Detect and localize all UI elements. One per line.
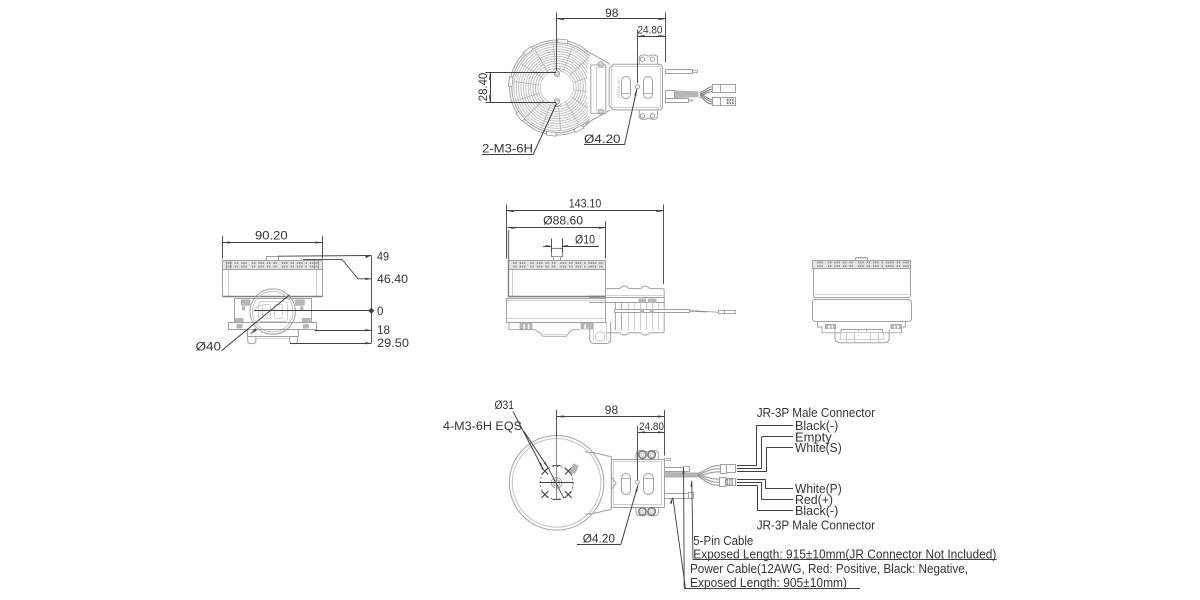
svg-text:oeooeoeo: oeooeoeo [616,78,621,99]
motor body v3 [509,270,606,297]
bracket side profile [606,286,665,335]
clamp screw lower [598,109,603,114]
bell internals [259,302,288,322]
feet gray v4 left [825,324,836,328]
connector bottom v5 [720,478,726,487]
leader 29.50 [290,343,371,345]
lower mount v4 [835,330,889,343]
stator band v4 [813,261,911,269]
connector upper [713,85,721,93]
motor body [223,270,323,297]
bracket upper plate [235,299,312,323]
screw X marks [542,468,549,475]
fan line black- top [757,425,793,427]
svg-text:2-M3-6H: 2-M3-6H [482,142,533,156]
tab screws bottom [639,508,646,515]
bracket hole 4.20 [636,85,640,89]
svg-text:46.40: 46.40 [377,272,408,286]
svg-text:18: 18 [377,323,390,337]
stator band [223,261,323,270]
bracket feet gray right [303,324,309,329]
feet gray v4 right [891,324,902,328]
fan line empty [762,436,793,438]
gray direction marker [570,463,579,474]
wire to small plug [696,311,719,312]
dim 24.80 top view [638,36,666,38]
leader 0 axis [254,310,371,312]
neck to bracket [587,53,610,122]
5-pin cable v5 [664,473,698,477]
bracket slot left [622,77,631,99]
svg-text:90.20: 90.20 [255,229,288,243]
fan line black- bottom [737,485,757,487]
motor pin rod [615,310,690,313]
svg-text:29.50: 29.50 [377,336,409,350]
dim 98 bottom [557,416,665,418]
slot left v5 [622,474,631,495]
dim 24.80 bottom [638,432,665,434]
connector lower [713,98,721,106]
M3 screw bottom [554,99,559,104]
svg-text:JR-3P Male Connector: JR-3P Male Connector [757,518,876,533]
dim 28.40 top view [490,73,492,103]
tab screws top [639,451,646,458]
lower body v4 [813,300,912,322]
bottom skirt v3 [509,322,580,336]
mount tabs on rim [546,131,556,136]
top tab v5 [636,451,659,460]
rotor outer circles [509,436,604,531]
svg-text:Ø4.20: Ø4.20 [583,532,616,546]
slot right v5 [644,474,654,495]
clamp block [591,65,606,113]
bracket stub v5 [665,459,671,461]
svg-text:Power Cable(12AWG, Red: Positi: Power Cable(12AWG, Red: Positive, Black:… [690,561,968,576]
crosshair vertical [556,465,558,499]
svg-text:Ø88.60: Ø88.60 [543,214,583,228]
upper body v4 [814,269,911,298]
bracket top tab [639,55,657,64]
dim 98 top view [557,18,666,20]
bell lower v3 [507,299,606,323]
winding rings [538,68,576,106]
svg-text:Black(-): Black(-) [795,503,838,518]
feet gray v3 [520,323,532,329]
bracket plate [609,64,662,110]
winding spokes [574,90,600,94]
svg-text:Ø10: Ø10 [575,232,595,246]
bracket v4 [818,322,906,333]
bracket gray block right [296,300,305,305]
svg-text:98: 98 [605,6,619,20]
center boss [551,478,562,489]
leader power cable A [682,467,684,474]
top tab [267,257,279,261]
bracket plate v5 [612,460,665,508]
bracket gray block left [241,300,250,305]
dim 90.20 [223,242,323,244]
fan line white-p [737,479,765,481]
bracket comb [628,303,630,330]
bracket bottom tab [639,110,657,119]
svg-text:0: 0 [377,304,384,318]
stator band v3 [509,261,606,270]
power wire lower [666,99,689,103]
bracket feet gray left [237,324,243,329]
leader 5-pin cable [690,480,692,487]
svg-text:24.80: 24.80 [639,421,664,433]
svg-text:Ø31: Ø31 [495,398,515,412]
svg-text:28.40: 28.40 [477,73,490,102]
hole 4.20 v5 [636,480,640,484]
svg-text:143.10: 143.10 [569,197,602,211]
svg-text:98: 98 [605,403,619,417]
center bore [541,71,574,104]
stator band ticks [226,261,228,269]
M3 screw top [554,71,559,76]
bracket lower plate [229,323,317,330]
5-pin cable [666,91,675,99]
power wire upper v5 [665,468,684,472]
leader 46.40 [303,259,371,278]
fan line white-s [767,447,793,449]
shaft [552,249,563,257]
svg-text:Ø4.20: Ø4.20 [584,132,621,146]
lower mount [248,330,299,337]
handle tab v4 [856,258,868,261]
dim 88.60 [508,227,606,229]
cable fan wires v5 [698,466,720,474]
neck v5 [585,452,611,514]
leader power cable B [670,497,673,504]
svg-text:24.80: 24.80 [638,24,663,36]
svg-text:Ø40: Ø40 [196,340,222,354]
bottom right foot [590,322,611,344]
bracket rails [589,297,665,299]
leader 18 [315,330,372,332]
svg-text:Exposed Length: 905±10mm): Exposed Length: 905±10mm) [690,575,847,590]
fan line red+ [737,482,761,484]
crosshair horizontal [540,482,574,484]
dim 143.10 [507,210,663,212]
boss circle 40 [250,289,295,334]
notch left v5 [611,477,616,490]
svg-text:49: 49 [377,249,389,263]
bolt circle dashed [540,466,573,499]
power wire upper [666,70,693,74]
cable wires to connectors [700,87,712,93]
dim 10 [551,239,553,253]
motor outer ring [510,40,605,135]
clamp screw upper [598,62,603,67]
power wire lower v5 [665,494,689,499]
connector top v5 [721,465,727,474]
motor left edge thick [508,230,510,296]
bracket gray blocks v3 [639,299,647,303]
small plug [719,311,725,314]
leader 49 [278,255,371,258]
bottom tab v5 [636,507,659,516]
ordinate column [371,256,373,344]
bracket slot right [644,77,653,99]
svg-text:4-M3-6H EQS: 4-M3-6H EQS [443,419,522,433]
svg-text:White(S): White(S) [795,440,842,455]
